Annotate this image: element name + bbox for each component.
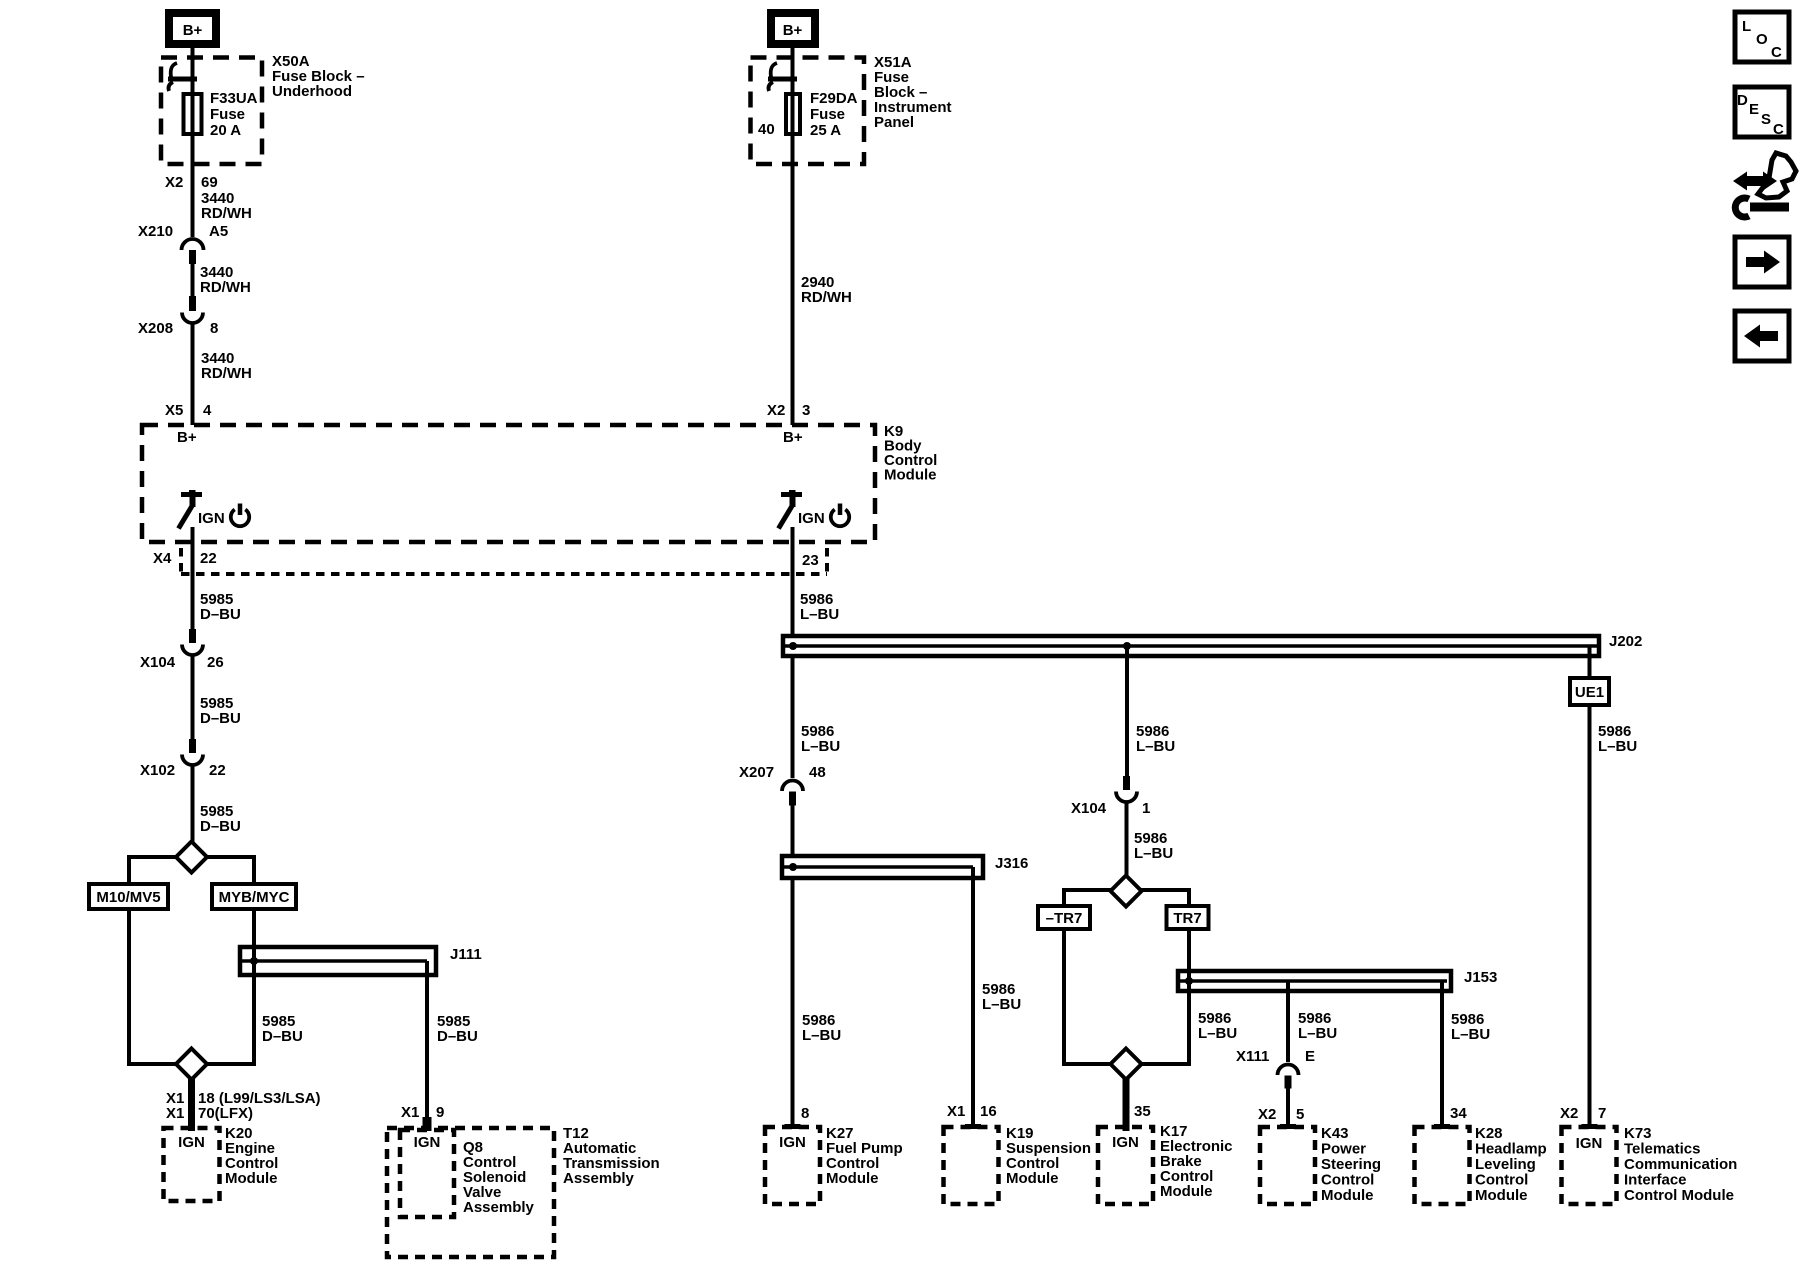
svg-text:L–BU: L–BU bbox=[802, 1027, 841, 1044]
svg-text:K43: K43 bbox=[1321, 1125, 1349, 1142]
wire label 5985 D-BU (MYB branch) bbox=[262, 1013, 303, 1045]
svg-text:K28: K28 bbox=[1475, 1125, 1503, 1142]
wire IGN output right (circuit 5986) bbox=[791, 527, 795, 648]
wire TR7 through J153 (redraw over bus) bbox=[1187, 969, 1191, 1064]
svg-text:Headlamp: Headlamp bbox=[1475, 1141, 1547, 1158]
svg-text:J153: J153 bbox=[1464, 969, 1497, 986]
svg-text:20 A: 20 A bbox=[210, 122, 241, 139]
terminal pin stub Q8 bbox=[423, 1117, 432, 1131]
svg-text:Fuse: Fuse bbox=[210, 106, 245, 123]
svg-text:X104: X104 bbox=[140, 654, 176, 671]
pin label X1 16 (K19) bbox=[947, 1103, 997, 1120]
svg-text:J111: J111 bbox=[450, 946, 482, 963]
svg-text:IGN: IGN bbox=[1112, 1134, 1139, 1151]
svg-text:IGN: IGN bbox=[198, 510, 225, 527]
wire label 5986 L-BU (K27 drop) bbox=[802, 1012, 841, 1044]
label Q8 Control Solenoid Valve Assembly bbox=[463, 1139, 535, 1216]
control solenoid valve Q8 (dashed box) bbox=[400, 1130, 454, 1217]
svg-text:26: 26 bbox=[207, 654, 224, 671]
svg-text:Module: Module bbox=[1321, 1187, 1374, 1204]
svg-text:X207: X207 bbox=[739, 764, 774, 781]
wire UE1 to K73 bbox=[1588, 705, 1592, 1126]
wire label 5985 D-BU bbox=[200, 591, 241, 623]
label T12 Automatic Transmission Assembly bbox=[563, 1125, 660, 1187]
svg-text:B+: B+ bbox=[783, 22, 803, 39]
transmission option box M10/MV5 bbox=[89, 884, 168, 909]
svg-text:48: 48 bbox=[809, 764, 826, 781]
svg-text:L–BU: L–BU bbox=[1451, 1026, 1490, 1043]
svg-text:X4: X4 bbox=[153, 550, 172, 567]
svg-text:X2: X2 bbox=[767, 402, 785, 419]
pin label X1 18 (L99/LS3/LSA) bbox=[166, 1090, 321, 1107]
junction dot J111 bbox=[250, 957, 258, 965]
label K9 Body Control Module bbox=[884, 423, 937, 484]
wire tap J316 to K19 bbox=[971, 867, 975, 1126]
splice pack J111 bbox=[240, 946, 482, 975]
fuse block X51A (dashed outline) bbox=[751, 58, 865, 165]
svg-text:X208: X208 bbox=[138, 320, 173, 337]
jump/tools icon bbox=[1733, 153, 1796, 217]
svg-text:35: 35 bbox=[1134, 1103, 1151, 1120]
telematics communication interface control module K73 (dashed box) bbox=[1562, 1127, 1617, 1204]
svg-text:Underhood: Underhood bbox=[272, 83, 352, 100]
label K73 Telematics Communication Interface Control Module bbox=[1624, 1125, 1737, 1204]
svg-text:22: 22 bbox=[209, 762, 226, 779]
LOC navigation box bbox=[1735, 12, 1789, 62]
svg-text:Module: Module bbox=[225, 1170, 278, 1187]
svg-text:16: 16 bbox=[980, 1103, 997, 1120]
svg-text:Control: Control bbox=[1321, 1172, 1374, 1189]
svg-text:J316: J316 bbox=[995, 855, 1028, 872]
wire J202 mid tap to X104 bbox=[1125, 646, 1129, 777]
branch line to M10/MV5 and MYB/MYC bbox=[129, 857, 254, 884]
svg-text:Module: Module bbox=[1160, 1183, 1213, 1200]
svg-text:25 A: 25 A bbox=[810, 122, 841, 139]
svg-text:L–BU: L–BU bbox=[800, 606, 839, 623]
junction dot J202 mid tap bbox=[1123, 642, 1131, 650]
svg-text:8: 8 bbox=[210, 320, 218, 337]
option box TR7 bbox=[1167, 906, 1209, 929]
label K27 Fuel Pump Control Module bbox=[826, 1125, 903, 1187]
svg-text:D–BU: D–BU bbox=[200, 710, 241, 727]
svg-text:Fuse: Fuse bbox=[810, 106, 845, 123]
svg-text:L–BU: L–BU bbox=[1598, 738, 1637, 755]
svg-text:–TR7: –TR7 bbox=[1046, 910, 1083, 927]
clip terminal at fuse block X50A bbox=[168, 63, 197, 91]
inline connector X104 pin 1 (right) bbox=[1071, 776, 1150, 817]
svg-text:RD/WH: RD/WH bbox=[200, 279, 251, 296]
power symbol icon (right) bbox=[831, 504, 849, 527]
svg-text:IGN: IGN bbox=[798, 510, 825, 527]
wire label 5986 L-BU (K28) bbox=[1451, 1011, 1490, 1043]
label X50A Fuse Block - Underhood bbox=[272, 53, 365, 100]
svg-text:X2: X2 bbox=[1258, 1106, 1276, 1123]
back arrow box bbox=[1735, 311, 1789, 361]
svg-text:RD/WH: RD/WH bbox=[201, 205, 252, 222]
wire label 5986 L-BU (right tap) bbox=[1598, 723, 1637, 755]
splice pack J316 bbox=[782, 855, 1028, 878]
svg-text:Power: Power bbox=[1321, 1141, 1366, 1158]
svg-text:TR7: TR7 bbox=[1173, 910, 1201, 927]
label K28 Headlamp Leveling Control Module bbox=[1475, 1125, 1547, 1204]
junction dot J153 bbox=[1185, 977, 1193, 985]
inline connector X208 pin 8 bbox=[138, 296, 218, 337]
wire label 5985 D-BU (J111 tap) bbox=[437, 1013, 478, 1045]
wire tap J111 to Q8 bbox=[425, 961, 429, 1118]
label K17 Electronic Brake Control Module bbox=[1160, 1123, 1233, 1200]
wire label 5986 L-BU (K19 drop) bbox=[982, 981, 1021, 1013]
label F33UA Fuse 20 A bbox=[210, 90, 258, 139]
pin label X1 9 (Q8) bbox=[401, 1104, 444, 1121]
wire merge to K17 bbox=[1123, 1078, 1130, 1131]
headlamp leveling control module K28 (dashed box) bbox=[1415, 1127, 1470, 1204]
wire label 5985 D-BU bbox=[200, 803, 241, 835]
connector X4 dotted line bbox=[181, 572, 827, 576]
B+ terminal box (right feed) bbox=[771, 13, 815, 44]
inline connector X207 pin 48 bbox=[739, 764, 826, 806]
svg-text:A5: A5 bbox=[209, 223, 228, 240]
wire J202 right tap to UE1 bbox=[1588, 646, 1592, 678]
label K43 Power Steering Control Module bbox=[1321, 1125, 1381, 1204]
inline connector X104 pin 26 (left) bbox=[140, 629, 224, 671]
wire label 2940 RD/WH bbox=[801, 274, 852, 306]
wire J202 down to X207 bbox=[791, 656, 795, 778]
label X51A Fuse Block - Instrument Panel bbox=[874, 54, 952, 131]
svg-text:X1: X1 bbox=[401, 1104, 419, 1121]
wire X102 to splice diamond bbox=[191, 765, 195, 845]
svg-text:L–BU: L–BU bbox=[1198, 1025, 1237, 1042]
svg-text:D–BU: D–BU bbox=[437, 1028, 478, 1045]
terminal T-bar K19 bbox=[965, 1124, 981, 1129]
fuse F33UA 20 A symbol bbox=[184, 94, 202, 134]
splice pack J153 bbox=[1178, 969, 1497, 991]
svg-text:B+: B+ bbox=[183, 22, 203, 39]
svg-text:L: L bbox=[1742, 18, 1751, 35]
wire B+ to fuse F33UA bbox=[191, 48, 195, 237]
svg-text:J202: J202 bbox=[1609, 633, 1642, 650]
label K19 Suspension Control Module bbox=[1006, 1125, 1091, 1187]
wire X104 to X102 bbox=[191, 655, 195, 740]
svg-text:22: 22 bbox=[200, 550, 217, 567]
connector X4 tick (left) bbox=[179, 548, 183, 574]
splitter diamond (top right) bbox=[1111, 876, 1142, 907]
svg-text:9: 9 bbox=[436, 1104, 444, 1121]
wire tap J153 to K28 bbox=[1440, 981, 1444, 1126]
splitter diamond (top left) bbox=[176, 842, 207, 873]
svg-text:X1: X1 bbox=[947, 1103, 965, 1120]
label K20 Engine Control Module bbox=[225, 1125, 278, 1187]
svg-text:Steering: Steering bbox=[1321, 1156, 1381, 1173]
wire label 5985 D-BU bbox=[200, 695, 241, 727]
wire B+ to fuse F29DA bbox=[791, 48, 795, 425]
inline connector X210 pin A5 bbox=[138, 223, 228, 264]
forward arrow box bbox=[1735, 237, 1789, 287]
svg-text:MYB/MYC: MYB/MYC bbox=[219, 889, 290, 906]
wire X208 to BCM X5 pin 4 bbox=[191, 323, 195, 425]
wire M10/MV5 down to merge bbox=[129, 909, 254, 1064]
svg-text:B+: B+ bbox=[783, 429, 803, 446]
wire label 3440 RD/WH bbox=[201, 190, 252, 222]
svg-text:D–BU: D–BU bbox=[262, 1028, 303, 1045]
svg-text:X2: X2 bbox=[165, 174, 183, 191]
ignition switch contact (left, inside K9) bbox=[179, 490, 203, 529]
svg-text:Communication: Communication bbox=[1624, 1156, 1737, 1173]
fuse block X50A (dashed outline) bbox=[161, 58, 262, 165]
wire tap J153 to X111 bbox=[1286, 981, 1290, 1062]
svg-text:IGN: IGN bbox=[414, 1134, 441, 1151]
svg-text:4: 4 bbox=[203, 402, 212, 419]
wire IGN output left (circuit 5985) bbox=[191, 527, 195, 630]
option box UE1 bbox=[1570, 678, 1609, 705]
fuse F29DA 25 A symbol bbox=[786, 94, 800, 134]
svg-text:Control: Control bbox=[1475, 1172, 1528, 1189]
svg-text:RD/WH: RD/WH bbox=[201, 365, 252, 382]
svg-text:C: C bbox=[1773, 121, 1784, 138]
svg-text:B+: B+ bbox=[177, 429, 197, 446]
svg-text:X102: X102 bbox=[140, 762, 175, 779]
suspension control module K19 (dashed box) bbox=[944, 1127, 999, 1204]
pin label X2 3 bbox=[767, 402, 810, 419]
svg-text:Telematics: Telematics bbox=[1624, 1141, 1700, 1158]
merge diamond (bottom left) bbox=[176, 1049, 207, 1080]
svg-text:7: 7 bbox=[1598, 1105, 1606, 1122]
engine control module K20 (dashed box) bbox=[164, 1128, 220, 1201]
svg-text:X210: X210 bbox=[138, 223, 173, 240]
svg-text:69: 69 bbox=[201, 174, 218, 191]
svg-text:X1: X1 bbox=[166, 1105, 184, 1122]
wire merge to K20 ECM bbox=[188, 1078, 195, 1131]
svg-text:5: 5 bbox=[1296, 1106, 1304, 1123]
terminal T-bar K43 bbox=[1280, 1124, 1296, 1129]
wire label 3440 RD/WH bbox=[201, 350, 252, 382]
svg-text:1: 1 bbox=[1142, 800, 1150, 817]
junction dot J316 bbox=[789, 863, 797, 871]
pin label X2 7 (K73) bbox=[1560, 1105, 1606, 1122]
inline connector X102 pin 22 bbox=[140, 739, 226, 779]
automatic transmission assembly T12 (dashed box) bbox=[387, 1128, 554, 1257]
svg-text:Control Module: Control Module bbox=[1624, 1187, 1734, 1204]
B+ terminal box (left feed) bbox=[169, 13, 216, 44]
ignition switch contact (right, inside K9) bbox=[779, 490, 803, 529]
branch line to -TR7 and TR7 bbox=[1064, 890, 1189, 906]
wire label 5986 L-BU (X111) bbox=[1298, 1010, 1337, 1042]
svg-text:E: E bbox=[1305, 1048, 1315, 1065]
svg-text:IGN: IGN bbox=[1576, 1135, 1603, 1152]
svg-text:F29DA: F29DA bbox=[810, 90, 858, 107]
wire label 5986 L-BU (K17) bbox=[1198, 1010, 1237, 1042]
pin label X2 5 (K43) bbox=[1258, 1106, 1304, 1123]
svg-text:IGN: IGN bbox=[779, 1134, 806, 1151]
splice pack J202 bbox=[783, 633, 1642, 656]
svg-text:23: 23 bbox=[802, 552, 819, 569]
svg-text:C: C bbox=[1771, 44, 1782, 61]
wire X104 to TR7 splitter bbox=[1125, 802, 1129, 878]
DESC navigation box bbox=[1735, 87, 1789, 138]
svg-text:70(LFX): 70(LFX) bbox=[198, 1105, 253, 1122]
wire X207 to J316 and K27 bbox=[791, 805, 795, 1126]
wire label 5986 L-BU (below J202 left) bbox=[801, 723, 840, 755]
svg-text:40: 40 bbox=[758, 121, 775, 138]
svg-text:D–BU: D–BU bbox=[200, 606, 241, 623]
terminal T-bar K73 bbox=[1582, 1124, 1598, 1129]
svg-text:3: 3 bbox=[802, 402, 810, 419]
power symbol icon (left) bbox=[231, 504, 249, 527]
svg-text:RD/WH: RD/WH bbox=[801, 289, 852, 306]
svg-text:X111: X111 bbox=[1236, 1048, 1269, 1065]
transmission option box MYB/MYC bbox=[212, 884, 296, 909]
wire label 3440 RD/WH bbox=[200, 264, 251, 296]
svg-text:Panel: Panel bbox=[874, 114, 914, 131]
wire label 5986 L-BU bbox=[800, 591, 839, 623]
svg-text:UE1: UE1 bbox=[1575, 684, 1604, 701]
svg-text:D: D bbox=[1737, 92, 1748, 109]
svg-text:IGN: IGN bbox=[178, 1134, 205, 1151]
svg-text:L–BU: L–BU bbox=[1134, 845, 1173, 862]
svg-text:S: S bbox=[1761, 111, 1771, 128]
svg-text:8: 8 bbox=[801, 1105, 809, 1122]
svg-text:L–BU: L–BU bbox=[1136, 738, 1175, 755]
svg-text:Leveling: Leveling bbox=[1475, 1156, 1536, 1173]
pin label X2 69 bbox=[165, 174, 218, 191]
svg-text:Module: Module bbox=[884, 467, 937, 484]
power steering control module K43 (dashed box) bbox=[1260, 1127, 1315, 1204]
svg-text:Module: Module bbox=[1475, 1187, 1528, 1204]
svg-text:L–BU: L–BU bbox=[1298, 1025, 1337, 1042]
svg-text:M10/MV5: M10/MV5 bbox=[96, 889, 160, 906]
inline connector X111 pin E bbox=[1236, 1048, 1315, 1089]
junction dot J202 entry bbox=[789, 642, 797, 650]
svg-text:X104: X104 bbox=[1071, 800, 1107, 817]
terminal T-bar K28 bbox=[1434, 1124, 1450, 1129]
connector X4 tick (right) bbox=[825, 548, 829, 574]
svg-text:K73: K73 bbox=[1624, 1125, 1652, 1142]
svg-text:L–BU: L–BU bbox=[801, 738, 840, 755]
fuel pump control module K27 (dashed box) bbox=[765, 1127, 820, 1204]
svg-text:O: O bbox=[1756, 31, 1768, 48]
label F29DA Fuse 25 A bbox=[810, 90, 858, 139]
pin label X5 4 bbox=[165, 402, 212, 419]
merge diamond (bottom right) bbox=[1111, 1049, 1142, 1080]
svg-text:E: E bbox=[1749, 101, 1759, 118]
pin label X1 70(LFX) bbox=[166, 1105, 253, 1122]
wire -TR7 down to merge bbox=[1064, 929, 1189, 1064]
wire label 5986 L-BU bbox=[1134, 830, 1173, 862]
svg-text:X2: X2 bbox=[1560, 1105, 1578, 1122]
svg-text:Interface: Interface bbox=[1624, 1172, 1687, 1189]
svg-text:34: 34 bbox=[1450, 1105, 1467, 1122]
wire X111 to K43 bbox=[1286, 1088, 1290, 1126]
wire label 5986 L-BU (mid tap) bbox=[1136, 723, 1175, 755]
svg-text:D–BU: D–BU bbox=[200, 818, 241, 835]
option box -TR7 bbox=[1038, 906, 1090, 929]
svg-text:Assembly: Assembly bbox=[463, 1199, 535, 1216]
electronic brake control module K17 (dashed box) bbox=[1098, 1127, 1153, 1204]
clip terminal at fuse block X51A bbox=[768, 63, 797, 91]
wire X210 to X208 bbox=[191, 264, 195, 297]
svg-text:L–BU: L–BU bbox=[982, 996, 1021, 1013]
svg-text:Module: Module bbox=[1006, 1170, 1059, 1187]
svg-text:X5: X5 bbox=[165, 402, 183, 419]
body control module K9 (dashed box) bbox=[142, 425, 875, 542]
pin label X4 22 bbox=[153, 550, 217, 567]
svg-text:Assembly: Assembly bbox=[563, 1170, 635, 1187]
svg-text:F33UA: F33UA bbox=[210, 90, 258, 107]
svg-text:Module: Module bbox=[826, 1170, 879, 1187]
terminal T-bar K27 bbox=[785, 1124, 801, 1129]
